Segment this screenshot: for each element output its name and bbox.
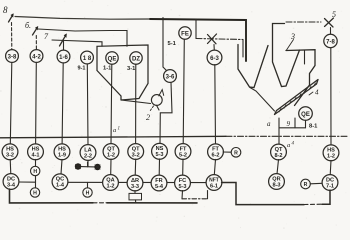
wire 3-6 down jog [160, 83, 172, 144]
pump 2 [151, 95, 162, 106]
svg-text:3-6: 3-6 [166, 74, 175, 80]
svg-text:5-3: 5-3 [155, 152, 163, 158]
instrument FT 5-2 [175, 144, 191, 160]
instrument HS 4-1 [28, 144, 44, 160]
instrument QA 1-2 [103, 175, 119, 191]
instrument FT 6-2 [208, 144, 224, 160]
svg-text:3-4: 3-4 [7, 182, 16, 188]
svg-text:а: а [113, 127, 116, 134]
wire from line1 down to valve line [195, 19, 197, 39]
svg-text:FE: FE [181, 32, 189, 38]
wire dashed drop to 4-2 [35, 36, 37, 50]
valve X mid [208, 34, 217, 44]
svg-text:H: H [33, 191, 37, 197]
instrument FR 5-4 [151, 175, 167, 191]
svg-text:5-4: 5-4 [155, 184, 164, 190]
instrument NS 5-3 [152, 143, 168, 159]
vessel V2 funnelA [238, 45, 268, 88]
wire bottom-right bracket [222, 183, 304, 205]
svg-text:8-1: 8-1 [309, 124, 318, 130]
instrument QT 8-2 [271, 144, 287, 160]
svg-text:5-3: 5-3 [178, 184, 186, 190]
lamp R right of FT6-2 [231, 148, 241, 158]
instrument QR 8-3 [269, 174, 285, 190]
instrument NFT 6-1 [206, 175, 222, 191]
actuator arrow b [33, 27, 38, 35]
svg-text:1-9: 1-9 [58, 153, 66, 159]
svg-text:4-2: 4-2 [32, 54, 41, 60]
instrument DC 7-1 [322, 175, 338, 191]
svg-text:б.: б. [25, 21, 31, 30]
svg-text:1-6: 1-6 [59, 55, 68, 61]
instrument LA 2-2 [80, 145, 96, 161]
instrument QC 1-4 [52, 174, 68, 190]
svg-text:3-1: 3-1 [127, 66, 136, 72]
instrument HS 1-2 [323, 145, 339, 161]
instrument QT 1-2 [103, 144, 119, 160]
svg-text:а: а [267, 120, 271, 128]
wire dash drop into vessel2 [242, 40, 244, 58]
svg-text:R: R [234, 150, 238, 156]
svg-text:6-3: 6-3 [210, 56, 219, 62]
lamp R right [301, 179, 311, 189]
circle 7-8 [324, 34, 337, 47]
panel boundary line [0, 136, 226, 138]
svg-text:9-1: 9-1 [78, 66, 86, 72]
wire tick above 1-6 [63, 41, 65, 50]
instrument HS 3-2 [2, 144, 18, 160]
circle 3-8 [6, 50, 19, 63]
svg-text:7-8: 7-8 [326, 39, 335, 45]
lamp H lower mid [83, 188, 92, 197]
wire QE8-1 bracket to QT8-2 [279, 118, 306, 144]
circle 6-3 [207, 50, 222, 65]
wire connector funnelA to mill [250, 88, 275, 112]
svg-text:QE: QE [301, 112, 310, 118]
actuator arrow a [9, 15, 14, 23]
svg-text:DZ: DZ [132, 56, 140, 62]
svg-text:2: 2 [146, 113, 150, 122]
plate below dR3-3 [134, 191, 136, 194]
svg-text:6-2: 6-2 [211, 153, 219, 159]
circle 1-6 [57, 50, 70, 63]
svg-text:QE: QE [108, 56, 117, 62]
vessel V2 inner wall [304, 51, 306, 65]
actuator arrow 7 [60, 35, 67, 46]
wire risers top circles to row1 [10, 63, 12, 145]
wire outlet to pump [121, 100, 151, 104]
instrument DC 3-4 [3, 174, 19, 190]
vessel V1 bunker [97, 45, 148, 100]
instrument QT 3-2 [128, 144, 144, 160]
svg-text:1-2: 1-2 [107, 152, 115, 158]
svg-text:H: H [33, 169, 37, 175]
circle 4-2 [30, 50, 43, 63]
wire 6-3 down to FT6-2 [214, 65, 217, 145]
svg-text:3-3: 3-3 [131, 184, 139, 190]
svg-text:8-2: 8-2 [274, 153, 282, 159]
svg-text:3-8: 3-8 [8, 54, 17, 60]
vessel V2 funnelB + pipe [273, 24, 300, 87]
svg-text:3-2: 3-2 [6, 153, 14, 159]
wire line2 [38, 29, 127, 46]
svg-text:8-3: 8-3 [272, 182, 280, 188]
svg-text:1: 1 [118, 127, 121, 132]
wire FT6-2 to lamp R [223, 151, 231, 153]
svg-text:3-2: 3-2 [132, 152, 140, 158]
svg-text:1-1: 1-1 [103, 66, 112, 72]
instrument FC 5-3 [175, 175, 191, 191]
selector dumbbell [81, 166, 96, 168]
wire dash link FC5-3 to NFT6-1 [181, 191, 184, 199]
svg-text:а: а [287, 142, 290, 149]
svg-text:1-4: 1-4 [56, 183, 65, 189]
instrument HS 1-9 [54, 144, 70, 160]
svg-text:R: R [304, 182, 308, 188]
svg-text:9: 9 [287, 120, 291, 128]
node 9 tick [294, 118, 296, 128]
op element QE 1-1 [106, 52, 118, 64]
svg-text:1-2: 1-2 [327, 154, 335, 160]
svg-text:1-2: 1-2 [106, 183, 114, 189]
svg-text:4: 4 [315, 89, 319, 97]
svg-text:4-1: 4-1 [31, 153, 39, 159]
wire row2 horizontals [19, 182, 36, 188]
svg-text:8: 8 [3, 5, 8, 15]
wire pipe inside funnelA [245, 20, 247, 61]
instrument dR 3-3 [127, 175, 143, 191]
wire bottom-left bracket [10, 189, 94, 203]
wire dashed drop to 3-8 [11, 23, 13, 50]
wire from line1 down to 3-6 [163, 18, 167, 72]
svg-text:6-1: 6-1 [210, 183, 218, 189]
op element DZ 3-1 [130, 52, 142, 64]
svg-text:3: 3 [290, 32, 295, 41]
wire tick to 6-3 [213, 45, 215, 51]
sensor QE 8-1 [299, 107, 313, 121]
wire line1 top feed [15, 17, 150, 20]
wire line3 [52, 40, 102, 46]
svg-text:7-1: 7-1 [326, 183, 334, 189]
circle 1-8 [81, 51, 94, 64]
lamp H upper [31, 166, 40, 175]
svg-text:H: H [86, 191, 90, 197]
svg-text:5-2: 5-2 [179, 152, 187, 158]
vessel V2 right section [286, 50, 315, 106]
lamp H lower left [30, 188, 39, 197]
circle 3-6 [164, 70, 177, 83]
mill 4 inclined band [275, 80, 319, 115]
wire row1-row2 ticks [9, 159, 12, 174]
svg-text:5-1: 5-1 [168, 41, 177, 47]
wire dash-dot valve line [196, 39, 243, 40]
mill hatching [279, 83, 316, 112]
svg-text:1 8: 1 8 [83, 56, 92, 62]
sensor FE 5-1 [179, 27, 191, 39]
wire 7-8 down to HS1-2 [330, 48, 332, 146]
